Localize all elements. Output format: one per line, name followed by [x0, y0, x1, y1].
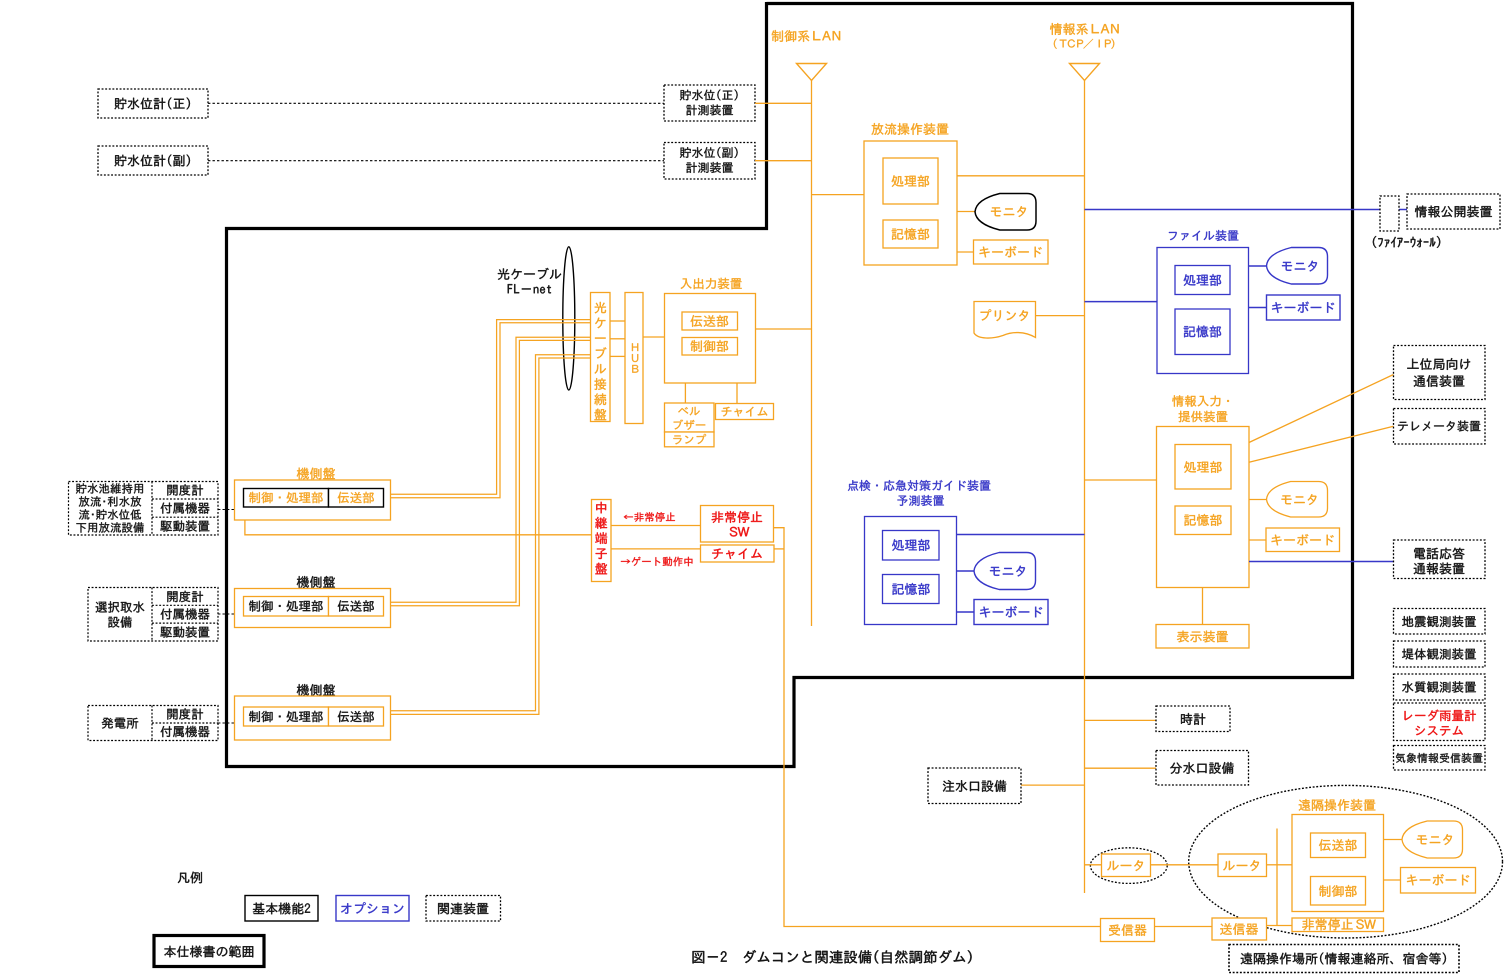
label (ファイアーウォール)	[1373, 236, 1440, 248]
antenna triangle 制御系LAN	[797, 64, 827, 81]
unit ファイル装置	[1169, 230, 1238, 241]
box 伝送部 of 入出力装置	[682, 312, 738, 330]
wire diagonal to 上位局向け通信装置	[1249, 375, 1394, 443]
label 情報系LAN	[1050, 23, 1119, 35]
monitor モニタ of 放流操作装置 (black outline)	[975, 194, 1036, 231]
box キーボード of 点検装置	[974, 600, 1048, 625]
box 制御部 of 入出力装置	[682, 338, 738, 356]
wire 制御系LAN to 放流操作装置	[812, 194, 865, 196]
box 記憶部 of ファイル装置	[1175, 309, 1230, 355]
legend box 基本機能2	[245, 896, 318, 922]
wire blue 情報系LAN to ファイル装置	[1085, 301, 1158, 303]
box 貯水池維持用放流設備 group	[69, 482, 219, 536]
box 記憶部 of 放流操作装置	[883, 220, 938, 248]
wire dashed 設備2 to 機側盤2	[218, 613, 235, 615]
wire 情報系LAN to 情報入力・提供装置	[1085, 479, 1157, 481]
unit 入出力装置	[681, 278, 742, 289]
box 情報公開装置	[1407, 194, 1500, 229]
wire 接続盤-HUB row3	[610, 355, 625, 357]
box ルータ1	[1102, 854, 1151, 877]
box チャイム (中継)	[701, 545, 775, 562]
router ellipse	[1090, 848, 1167, 884]
wire チャイム to remote line	[774, 548, 784, 550]
wire 中継端子盤 to 非常停止SW	[611, 525, 701, 527]
bus 情報系LAN vertical wire	[1084, 81, 1086, 894]
box キーボード of 放流操作装置	[974, 240, 1049, 264]
unit 情報入力・提供装置	[1172, 395, 1229, 406]
label ←非常停止	[624, 512, 675, 522]
label (TCP/IP)	[1054, 39, 1114, 49]
unit 機側盤1	[297, 468, 335, 480]
box 伝送部 of 遠隔操作装置	[1311, 833, 1366, 858]
wire HUB to 入出力装置	[643, 336, 665, 338]
box 発電所 group	[88, 706, 218, 741]
antenna triangle 情報系LAN	[1070, 64, 1100, 81]
legend box 本仕様書の範囲	[154, 936, 264, 967]
wire remote bus to 遠隔操作装置	[1277, 864, 1292, 866]
printer プリンタ	[974, 302, 1036, 339]
box 制御・処理部 of 機側盤3	[244, 707, 329, 726]
label 制御系LAN	[772, 30, 840, 42]
scope border 本仕様書の範囲 polygon	[227, 2, 1353, 767]
box 時計	[1085, 719, 1157, 721]
box ルータ2	[1218, 854, 1267, 877]
monitor モニタ of 情報入力・提供装置	[1267, 482, 1328, 518]
box 送信器	[1212, 918, 1267, 940]
box 制御・処理部 of 機側盤1	[244, 489, 329, 508]
box 伝送部 of 機側盤3	[329, 707, 384, 726]
box ランプ	[665, 432, 715, 447]
box チャイム (入出力装置)	[716, 404, 774, 420]
wire dashed 貯水位計(副) to 計測装置	[208, 160, 664, 162]
wire プリンタ to 情報系LAN	[1036, 315, 1085, 317]
wire blue 情報系LAN to ファイアーウォール	[1085, 209, 1381, 211]
wire diagonal to テレメータ装置	[1249, 426, 1394, 462]
unit 機側盤2	[297, 576, 335, 588]
wire to キーボード of 点検装置	[957, 611, 975, 613]
wire blue ファイアーウォール to 情報公開装置	[1399, 209, 1407, 211]
box 記憶部 of 情報入力・提供装置	[1175, 506, 1231, 535]
remote small bus wire	[1276, 829, 1278, 926]
wire to モニタ of 点検装置	[957, 570, 975, 572]
box 堤体観測装置	[1394, 641, 1486, 667]
box 受信器	[1101, 919, 1155, 942]
remote site ellipse	[1189, 785, 1503, 938]
wire 送信器 to 非常停止SW(remote)	[1267, 925, 1293, 927]
box 地震観測装置	[1394, 609, 1486, 635]
fiber cable ellipse marker	[563, 247, 575, 390]
wire to モニタ of ファイル装置	[1249, 265, 1267, 267]
box 注水口設備	[1021, 784, 1085, 786]
box 気象情報受信装置	[1394, 746, 1486, 771]
cable1 機側盤1 to 接続盤 (double wire)	[384, 320, 591, 495]
wire 入出力装置 to 制御系LAN	[756, 328, 812, 330]
wire 接続盤-HUB row2	[610, 338, 625, 340]
box 分水口設備	[1085, 767, 1157, 769]
wire ルータ1 to ルータ2	[1151, 864, 1219, 866]
wire ルータ2 to remote bus	[1267, 864, 1278, 866]
monitor モニタ of ファイル装置	[1267, 248, 1328, 285]
box 非常停止SW	[701, 506, 774, 543]
cable2 機側盤2 to 接続盤 (double wire)	[384, 337, 591, 602]
wire to キーボード of 遠隔操作装置	[1384, 879, 1401, 881]
box 処理部 of 情報入力・提供装置	[1175, 445, 1231, 490]
box 貯水位(正)計測装置	[664, 85, 755, 121]
wire blue to 電話応答通報装置	[1249, 561, 1394, 563]
box 遠隔操作場所	[1229, 945, 1459, 973]
box HUB	[625, 293, 643, 424]
wire 受信器 to 送信器	[1155, 926, 1213, 928]
box 制御部 of 遠隔操作装置	[1311, 877, 1366, 906]
legend box オプション	[336, 896, 409, 922]
wire 入出力装置 to ベルブザーランプ	[684, 383, 686, 403]
wire 計測装置(副) to 制御系LAN bus	[755, 160, 812, 162]
box 処理部 of ファイル装置	[1175, 266, 1230, 295]
wire 情報系LAN to ルータ1	[1085, 864, 1102, 866]
box 非常停止SW (remote)	[1292, 918, 1384, 932]
monitor モニタ of 点検装置	[974, 553, 1036, 590]
box 記憶部 of 点検装置	[883, 575, 940, 604]
box 処理部 of 放流操作装置	[883, 158, 938, 204]
box 伝送部 of 機側盤1	[329, 489, 384, 508]
wire 放流操作装置 to 情報系LAN	[957, 175, 1085, 177]
box 制御・処理部 of 機側盤2	[244, 597, 329, 617]
wire 接続盤-HUB row1	[610, 320, 625, 322]
box 中継端子盤	[592, 500, 612, 582]
wire blue 点検装置 to 情報系LAN	[957, 534, 1085, 536]
wire dashed 設備1 to 機側盤1	[218, 509, 235, 511]
wire 情報入力・提供装置 to 表示装置	[1202, 588, 1204, 625]
box 選択取水設備 group	[88, 588, 218, 642]
wire dashed 発電所 to 機側盤3	[218, 722, 235, 724]
box ファイアーウォール	[1380, 196, 1399, 231]
wire to キーボード of 情報入力・提供装置	[1249, 539, 1266, 541]
wire 機側盤1 to 中継端子盤	[245, 520, 592, 535]
unit 点検・応急対策ガイド装置 予測装置	[848, 480, 990, 491]
wire dashed 貯水位計(正) to 計測装置	[208, 102, 664, 104]
box 光ケーブル接続盤	[591, 293, 611, 422]
wire 非常停止SW to remote line	[774, 528, 1101, 927]
label 光ケーブル FL-net	[498, 268, 561, 280]
unit 機側盤3	[297, 684, 335, 696]
wire to キーボード of ファイル装置	[1249, 307, 1267, 309]
box 電話応答通報装置	[1394, 540, 1486, 579]
box キーボード of 遠隔操作装置	[1401, 868, 1476, 894]
box キーボード of ファイル装置	[1267, 295, 1341, 320]
wire to モニタ of 放流操作装置	[957, 211, 975, 213]
legend box 関連装置	[426, 896, 501, 922]
box 処理部 of 点検装置	[883, 531, 940, 561]
caption 図-2 ダムコンと関連設備(自然調節ダム)	[693, 950, 972, 964]
label 凡例	[178, 872, 202, 884]
box 表示装置	[1156, 625, 1249, 649]
box 伝送部 of 機側盤2	[329, 597, 384, 617]
wire to キーボード of 放流操作装置	[957, 251, 974, 253]
box ベル・ブザー	[665, 403, 715, 432]
wire to モニタ of 遠隔操作装置	[1384, 839, 1403, 841]
box 上位局向け通信装置	[1394, 346, 1486, 400]
unit 遠隔操作装置	[1299, 799, 1376, 811]
box キーボード of 情報入力・提供装置	[1266, 528, 1340, 552]
wire 計測装置(正) to 制御系LAN bus	[755, 102, 812, 104]
box 貯水位計(正)	[98, 89, 208, 118]
bus 制御系LAN vertical wire	[811, 81, 813, 627]
box 貯水位(副)計測装置	[664, 143, 755, 180]
label →ゲート動作中	[621, 557, 692, 566]
cable3 機側盤3 to 接続盤 (double wire)	[384, 355, 591, 711]
wire 中継端子盤 to チャイム	[611, 548, 701, 550]
box 水質観測装置	[1394, 674, 1486, 700]
wire to モニタ of 情報入力・提供装置	[1249, 499, 1267, 501]
box 貯水位計(副)	[98, 146, 208, 175]
unit 放流操作装置	[872, 123, 949, 135]
box テレメータ装置	[1394, 409, 1486, 445]
wire 入出力装置 to チャイム	[736, 383, 738, 404]
monitor モニタ of 遠隔操作装置	[1402, 821, 1463, 858]
box レーダ雨量計システム	[1394, 703, 1486, 741]
